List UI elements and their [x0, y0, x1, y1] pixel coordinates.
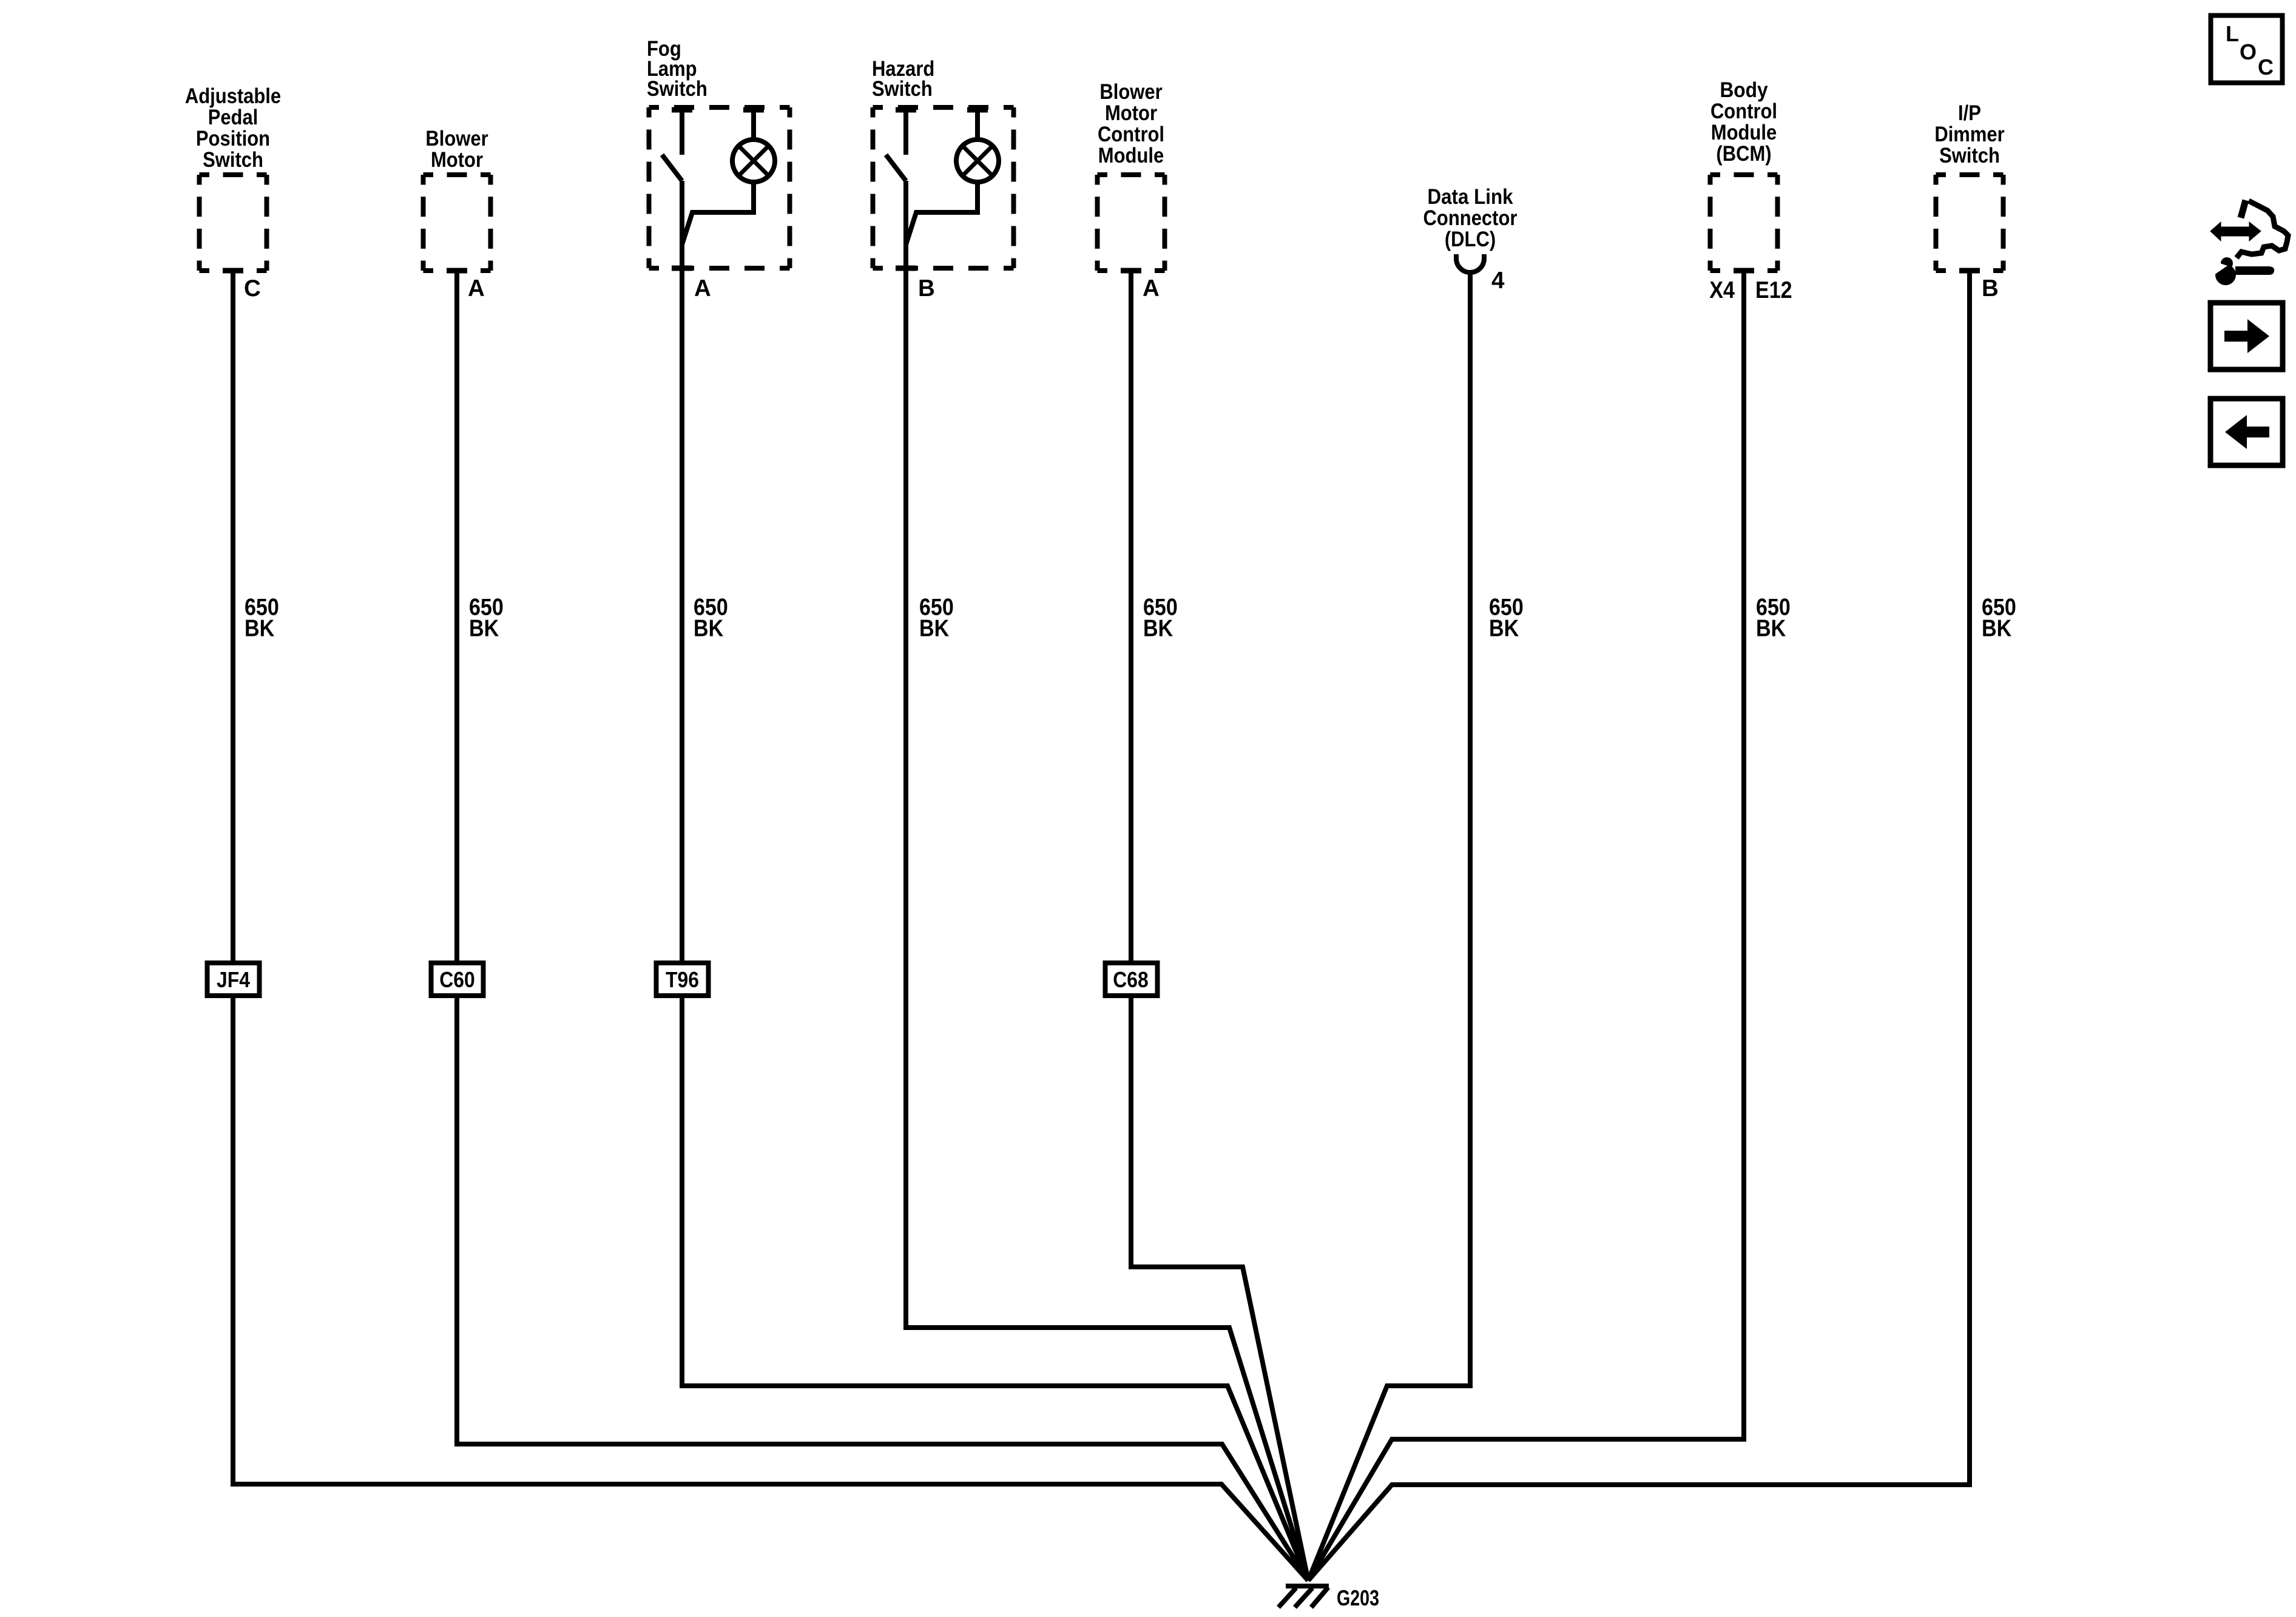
icon: forward arrow box [2210, 303, 2283, 370]
component: Blower Motor (dashed box) [424, 175, 491, 271]
svg-text:4: 4 [1491, 268, 1505, 294]
component: Blower Motor Control Module label [1098, 80, 1164, 167]
pin label B [1982, 275, 1999, 302]
component: I/P Dimmer Switch (dashed box) [1936, 175, 2004, 271]
component: Blower Motor label [425, 127, 488, 172]
svg-text:Position: Position [196, 127, 270, 150]
svg-text:Data Link: Data Link [1427, 185, 1513, 209]
lamp bottom lead and elbow to switch wire [906, 182, 977, 245]
icon: LOC reference box [2211, 16, 2283, 83]
pin label X4 [1709, 277, 1735, 303]
svg-text:Control: Control [1098, 123, 1164, 146]
svg-text:C: C [244, 275, 261, 302]
pin tick at I/P dimmer switch pin B [1959, 268, 1980, 274]
svg-text:A: A [468, 275, 485, 302]
wire label 650 BK (W7) [1756, 595, 1791, 642]
svg-text:X4: X4 [1709, 277, 1735, 303]
svg-text:I/P: I/P [1958, 101, 1981, 125]
svg-text:Blower: Blower [1099, 80, 1163, 104]
svg-text:BK: BK [694, 616, 723, 642]
lamp top lead [743, 107, 764, 140]
svg-text:Switch: Switch [872, 77, 933, 101]
svg-text:Connector: Connector [1423, 206, 1518, 230]
pin tick at pedal switch pin C [223, 268, 243, 274]
pin label E12 [1755, 277, 1792, 303]
pin tick at BCM [1734, 268, 1754, 274]
wire W6: DLC pin 4 to ground [1308, 272, 1470, 1581]
pin tick at blower motor pin A [447, 268, 467, 274]
wire label 650 BK (W3) [694, 595, 728, 642]
svg-text:BK: BK [1756, 616, 1786, 642]
svg-text:A: A [694, 275, 711, 302]
lamp top lead [967, 107, 988, 140]
svg-text:BK: BK [919, 616, 949, 642]
svg-text:Motor: Motor [431, 148, 483, 172]
svg-text:BK: BK [1489, 616, 1519, 642]
component: Fog Lamp Switch label [647, 37, 707, 101]
svg-text:Switch: Switch [1939, 144, 2000, 167]
wire label 650 BK (W2) [469, 595, 504, 642]
svg-text:Adjustable: Adjustable [185, 84, 281, 108]
svg-text:O: O [2240, 39, 2257, 64]
svg-text:T96: T96 [666, 967, 699, 992]
wire W8: I/P Dimmer Switch pin B to ground [1308, 271, 1970, 1581]
wire W5: Blower Motor Control Module pin A to ground [1131, 271, 1308, 1581]
switch fixed-contact stub [672, 107, 692, 155]
wire W1: Adjustable Pedal Position Switch pin C to ground [233, 271, 1308, 1581]
svg-text:(BCM): (BCM) [1716, 142, 1771, 166]
pin tick at switch output [672, 266, 692, 271]
ground label G203 [1337, 1585, 1379, 1610]
svg-text:G203: G203 [1337, 1585, 1379, 1610]
svg-text:Module: Module [1098, 144, 1164, 167]
pin label A [468, 275, 485, 302]
component: Hazard Switch label [872, 57, 934, 101]
svg-text:C: C [2258, 55, 2274, 79]
component: Fog Lamp Switch (dashed box) [649, 107, 790, 268]
lamp (indicator bulb) [732, 140, 775, 182]
switch blade [886, 155, 906, 181]
component: DLC connector symbol (half-circle) [1456, 254, 1484, 272]
switch blade [662, 155, 682, 181]
wire W3: Fog Lamp Switch pin A to ground [682, 181, 1308, 1581]
wire label 650 BK (W4) [919, 595, 954, 642]
ground G203 symbol [1278, 1586, 1329, 1607]
svg-text:Switch: Switch [647, 77, 707, 101]
svg-text:A: A [1143, 275, 1160, 302]
svg-text:BK: BK [245, 616, 274, 642]
pin label A [1143, 275, 1160, 302]
svg-text:Body: Body [1720, 78, 1768, 102]
pin tick at switch output [896, 266, 916, 271]
pin tick at BMCM pin A [1121, 268, 1141, 274]
icon: back arrow box [2210, 399, 2283, 465]
pin label C [244, 275, 261, 302]
component: Body Control Module (dashed box) [1710, 175, 1778, 271]
svg-text:Dimmer: Dimmer [1934, 123, 2005, 146]
inline connector JF4 [208, 963, 260, 996]
wire W2: Blower Motor pin A to ground [457, 271, 1308, 1581]
wire W4: Hazard Switch pin B to ground [906, 181, 1308, 1581]
pin label B [918, 275, 935, 302]
svg-text:Pedal: Pedal [208, 106, 258, 129]
component: Adjustable Pedal Position Switch (dashed box) [200, 175, 267, 271]
svg-text:BK: BK [469, 616, 499, 642]
component: I/P Dimmer Switch label [1934, 101, 2005, 167]
lamp bottom lead and elbow to switch wire [682, 182, 754, 245]
svg-text:BK: BK [1982, 616, 2011, 642]
svg-text:Switch: Switch [203, 148, 263, 172]
component: Data Link Connector (DLC) label [1423, 185, 1518, 251]
component: Body Control Module (BCM) label [1710, 78, 1777, 166]
component: Blower Motor Control Module (dashed box) [1098, 175, 1165, 271]
svg-text:JF4: JF4 [217, 967, 250, 992]
svg-text:Blower: Blower [425, 127, 488, 150]
wire label 650 BK (W6) [1489, 595, 1524, 642]
lamp (indicator bulb) [956, 140, 999, 182]
wire label 650 BK (W8) [1982, 595, 2016, 642]
svg-text:(DLC): (DLC) [1445, 228, 1496, 251]
pin label 4 [1491, 268, 1505, 294]
svg-text:B: B [1982, 275, 1999, 302]
wire label 650 BK (W1) [245, 595, 279, 642]
inline connector C68 [1106, 963, 1158, 996]
svg-text:Motor: Motor [1105, 101, 1157, 125]
svg-text:Control: Control [1710, 100, 1777, 123]
inline connector T96 [657, 963, 709, 996]
svg-text:BK: BK [1143, 616, 1173, 642]
wire W7: BCM pin X4/E12 to ground [1308, 271, 1744, 1581]
svg-text:Module: Module [1711, 121, 1777, 144]
wire label 650 BK (W5) [1143, 595, 1178, 642]
component: Hazard Switch (dashed box) [873, 107, 1014, 268]
icon: diagnostic service (arrow / connector outline / wrench) [2210, 200, 2288, 285]
svg-text:E12: E12 [1755, 277, 1792, 303]
svg-text:C60: C60 [439, 967, 474, 992]
svg-text:B: B [918, 275, 935, 302]
switch fixed-contact stub [896, 107, 916, 155]
inline connector C60 [431, 963, 484, 996]
svg-text:C68: C68 [1113, 967, 1148, 992]
pin label A [694, 275, 711, 302]
svg-text:L: L [2226, 21, 2239, 46]
component: Adjustable Pedal Position Switch label [185, 84, 281, 172]
